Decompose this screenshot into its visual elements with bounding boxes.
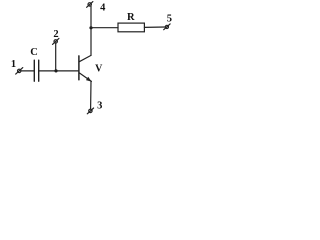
wire collector to terminal4	[90, 6, 92, 55]
wire terminal2 to node	[55, 43, 57, 71]
svg-text:C: C	[30, 47, 38, 58]
terminal 2	[53, 38, 59, 44]
svg-text:5: 5	[167, 13, 172, 24]
terminal 1	[16, 68, 23, 75]
svg-text:V: V	[95, 63, 103, 74]
wire emitter to terminal3	[90, 81, 92, 109]
wire terminal1 to C	[21, 70, 34, 72]
svg-text:3: 3	[97, 100, 102, 111]
wire node to R	[91, 27, 118, 29]
junction node base wire	[54, 69, 57, 72]
svg-text:1: 1	[11, 59, 16, 70]
resistor R	[118, 23, 144, 32]
terminal 4	[87, 2, 93, 8]
terminal 3	[87, 108, 93, 114]
junction node collector wire	[89, 26, 92, 29]
svg-text:R: R	[127, 12, 135, 23]
wire C to base	[39, 70, 79, 72]
transistor V	[79, 55, 92, 81]
svg-text:2: 2	[53, 29, 58, 40]
terminal 5	[164, 24, 170, 30]
capacitor C	[34, 60, 38, 81]
svg-text:4: 4	[100, 2, 106, 13]
wire R to terminal5	[144, 26, 165, 28]
